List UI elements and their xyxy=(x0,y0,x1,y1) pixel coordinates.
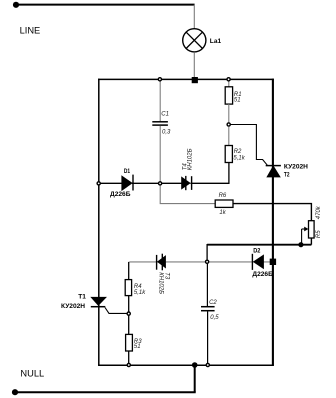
svg-text:0,3: 0,3 xyxy=(162,129,171,135)
capacitor C2 leads xyxy=(206,264,208,306)
wire R4-R3 link xyxy=(128,296,130,335)
svg-text:R2: R2 xyxy=(234,149,242,155)
svg-text:КУ202Н: КУ202Н xyxy=(61,303,85,310)
svg-text:КН102Б: КН102Б xyxy=(188,148,194,170)
svg-text:Д226Б: Д226Б xyxy=(110,191,131,198)
wire thick return line xyxy=(207,244,311,246)
thyristor T2 xyxy=(266,166,281,177)
junction ring T1 gate node xyxy=(127,312,130,315)
resistor R6 xyxy=(215,200,233,207)
wire return line drop xyxy=(206,244,208,260)
junction dot wiper / return line xyxy=(298,242,303,247)
wire C1 bottom lead xyxy=(159,126,161,182)
wire lamp bottom lead xyxy=(193,52,195,78)
svg-text:D1: D1 xyxy=(124,168,130,175)
resistor R2 xyxy=(225,146,232,163)
wire T3/D2 node line xyxy=(129,261,272,263)
wire NULL riser xyxy=(194,365,196,392)
node LINE terminal dot xyxy=(13,2,19,8)
wire T1 gate xyxy=(105,308,127,314)
svg-text:470k: 470k xyxy=(316,205,322,219)
wire C2 bottom lead xyxy=(207,311,209,364)
wire LINE feeder xyxy=(16,4,195,6)
wire NULL feeder xyxy=(15,391,196,393)
wire top bus xyxy=(98,78,274,80)
svg-text:0,5: 0,5 xyxy=(210,315,219,321)
wire right bus xyxy=(272,79,274,366)
svg-text:КУ202Н: КУ202Н xyxy=(284,163,308,170)
svg-text:Т1: Т1 xyxy=(78,293,86,300)
svg-text:C1: C1 xyxy=(161,112,169,118)
svg-text:Т3: Т3 xyxy=(164,272,170,280)
wire R5 bottom lead xyxy=(310,238,312,245)
junction ring return drop / node xyxy=(206,260,209,263)
resistor R3 xyxy=(126,334,133,351)
lamp La1 xyxy=(183,29,206,52)
wire R6 tap vertical xyxy=(160,186,215,204)
resistor R4 xyxy=(125,280,131,296)
svg-text:D2: D2 xyxy=(253,247,260,254)
wire R6 to R5 xyxy=(233,204,311,221)
svg-text:Т2: Т2 xyxy=(284,172,290,179)
wire bottom bus xyxy=(98,364,274,366)
junction ring R3 / bottom bus xyxy=(127,363,130,366)
wire C1 top lead xyxy=(159,79,161,121)
svg-text:5,1k: 5,1k xyxy=(233,156,245,162)
wire R2 top lead xyxy=(228,127,230,146)
capacitor C1 xyxy=(152,122,168,125)
junction ring left bus / node line xyxy=(97,182,100,185)
wire R1 bottom lead xyxy=(228,104,230,122)
junction ring top bus / R1 xyxy=(227,78,230,81)
svg-text:Д226Б: Д226Б xyxy=(252,271,273,278)
junction ring top bus / C1 xyxy=(158,78,161,81)
svg-text:5,1k: 5,1k xyxy=(134,290,146,296)
svg-text:1k: 1k xyxy=(219,210,226,216)
junction dot NULL / bottom bus xyxy=(192,362,198,368)
wiper arrow R5 xyxy=(302,227,309,245)
wire R1 top lead xyxy=(228,79,230,87)
potentiometer R5 xyxy=(309,221,315,238)
thyristor T1 xyxy=(91,297,106,306)
svg-text:КН102Б: КН102Б xyxy=(158,272,164,294)
node NULL terminal dot xyxy=(12,389,18,395)
dinistor T3 xyxy=(157,254,166,271)
svg-text:NULL: NULL xyxy=(20,369,44,379)
dinistor T4 xyxy=(182,176,192,190)
diode D2 xyxy=(252,254,263,270)
capacitor C2 xyxy=(201,307,215,311)
wire R3 bottom lead xyxy=(128,351,130,364)
junction ring node line / C1-R6 tap xyxy=(159,182,162,185)
svg-text:R6: R6 xyxy=(219,193,227,199)
svg-text:51: 51 xyxy=(134,344,141,350)
wire left bus xyxy=(98,79,100,366)
svg-text:R5: R5 xyxy=(316,230,322,238)
svg-text:La1: La1 xyxy=(210,38,222,45)
svg-text:LINE: LINE xyxy=(20,26,41,36)
wire R4 top lead xyxy=(128,262,130,280)
junction square at lamp / top bus xyxy=(192,77,198,83)
junction ring R1/R2/gate node xyxy=(227,123,230,126)
junction square D2 / right bus xyxy=(270,259,276,265)
resistor R1 xyxy=(225,87,232,104)
svg-text:C2: C2 xyxy=(209,300,217,306)
junction ring C2 / bottom bus xyxy=(206,363,209,366)
svg-text:51: 51 xyxy=(234,97,241,103)
diode D1 xyxy=(122,175,133,191)
wire T2 gate xyxy=(230,125,267,166)
wire node line middle segment xyxy=(132,182,182,184)
wire R2 bottom lead to node line xyxy=(191,163,229,184)
wire lamp top lead xyxy=(193,5,195,29)
wire node line D1 segment xyxy=(100,182,123,184)
